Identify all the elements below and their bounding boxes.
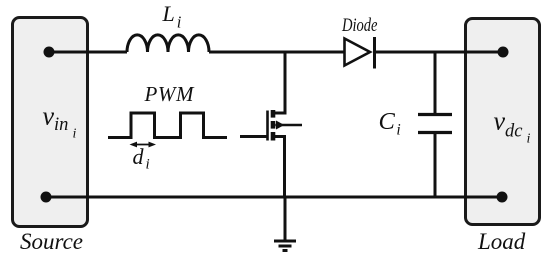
node: source top terminal <box>44 47 55 58</box>
transistor Q (mosfet) gate bar <box>266 111 269 141</box>
svg-text:di: di <box>133 144 150 173</box>
capacitor branch top wire <box>434 52 437 114</box>
mosfet body arrow <box>276 121 284 130</box>
inductor Li <box>127 35 209 52</box>
svg-text:PWM: PWM <box>144 82 196 106</box>
pwm waveform <box>108 113 227 138</box>
ground stem <box>284 197 287 240</box>
source box <box>13 18 88 227</box>
wire: inductor to diode <box>209 51 344 54</box>
svg-text:Diode: Diode <box>341 15 377 36</box>
capacitor Ci plates <box>418 113 452 116</box>
node: source bottom terminal <box>41 192 52 203</box>
wire: mosfet source branch <box>273 137 285 198</box>
wire: mosfet drain branch <box>273 52 286 113</box>
load box <box>466 19 540 225</box>
svg-text:Li: Li <box>162 1 182 32</box>
svg-text:Source: Source <box>20 229 83 254</box>
mosfet channel segments <box>271 110 276 118</box>
wire: bottom rail <box>46 196 502 199</box>
svg-text:Ci: Ci <box>379 108 401 139</box>
node: load bottom terminal <box>497 192 508 203</box>
node: load top terminal <box>498 47 509 58</box>
wire: gate lead <box>240 135 268 138</box>
diode D <box>345 39 371 66</box>
di arrow <box>133 144 153 146</box>
wire: diode to load <box>375 51 504 54</box>
capacitor branch bottom wire <box>434 133 437 197</box>
svg-text:Load: Load <box>477 229 526 254</box>
wire: top left (source to inductor) <box>49 51 127 54</box>
ground <box>274 240 296 243</box>
